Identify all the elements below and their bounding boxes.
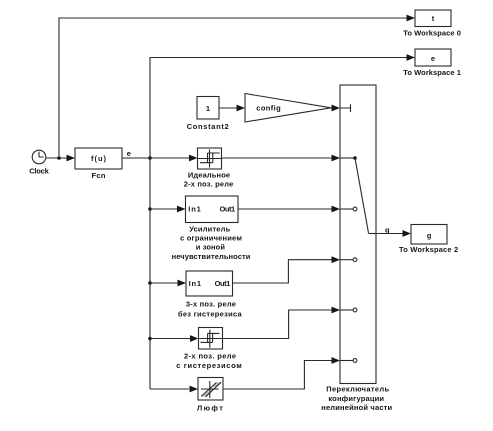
switch unselected port 4 (340, 308, 357, 312)
svg-text:1: 1 (206, 104, 210, 113)
subsystem: 3-pos relay In1/Out1 (186, 271, 233, 296)
svg-text:In1: In1 (188, 205, 201, 214)
wire Clock to Fcn (46, 157, 68, 159)
svg-text:с ограничением: с ограничением (180, 234, 242, 243)
svg-text:Constant2: Constant2 (187, 122, 229, 131)
svg-text:g: g (427, 231, 432, 240)
wire gain to switch control port (331, 107, 332, 109)
svg-text:config: config (256, 104, 281, 113)
switch selected input stub (340, 157, 355, 159)
svg-text:Переключатель: Переключатель (326, 385, 389, 394)
label 2-х поз. реле / с гистерезисом (176, 351, 242, 370)
svg-text:e: e (431, 54, 435, 63)
arrowhead into gain (237, 105, 246, 112)
svg-text:и зоной: и зоной (196, 243, 226, 252)
gain block config (245, 94, 331, 123)
wire e up to To Workspace 1 (150, 58, 407, 159)
wire amplifier to switch port 2 (238, 208, 332, 210)
junction on e bus at hysteresis relay row (148, 337, 152, 341)
svg-text:To Workspace 1: To Workspace 1 (403, 68, 461, 77)
wire e vertical bus down (149, 158, 151, 389)
switch unselected port 3 (340, 258, 357, 262)
Constant2 block (197, 97, 219, 120)
svg-text:Fcn: Fcn (92, 171, 106, 180)
To Workspace 0 block (415, 10, 451, 27)
svg-text:Усилитель: Усилитель (189, 224, 230, 233)
wire ideal relay to switch port 1 (222, 157, 333, 159)
wire Constant2 to gain config (219, 107, 237, 109)
arrowhead into hysteresis relay (190, 335, 199, 342)
subsystem: amplifier with saturation In1/Out1 (186, 196, 239, 223)
svg-text:конфигурации: конфигурации (328, 394, 384, 403)
svg-text:To Workspace 2: To Workspace 2 (399, 245, 458, 254)
arrowhead into ideal relay (189, 155, 198, 162)
arrowhead into amplifier (177, 206, 186, 213)
junction on e bus at 3-pos relay row (148, 281, 152, 285)
label Идеальное / 2-х поз. реле (184, 170, 234, 188)
arrowhead into switch port 2 (332, 206, 341, 213)
label Усилитель (4 lines) (172, 224, 251, 261)
svg-text:с гистерезисом: с гистерезисом (176, 361, 242, 370)
junction on e bus at amplifier row (148, 207, 152, 211)
switch selected input dot (353, 156, 357, 160)
wire Fcn output to relay row (122, 157, 190, 159)
switch unselected port 5 (340, 359, 357, 363)
arrowhead into switch control (332, 105, 341, 112)
svg-text:e: e (127, 149, 131, 158)
svg-text:g: g (385, 225, 390, 234)
arrowhead into switch port 4 (332, 307, 341, 314)
arrowhead into To Workspace 2 (403, 230, 412, 237)
svg-text:Out1: Out1 (220, 205, 236, 214)
wire switch output to To Workspace 2 (376, 233, 403, 235)
svg-text:нечувствительности: нечувствительности (172, 252, 251, 261)
switch control port marker (340, 104, 351, 112)
svg-text:To Workspace 0: To Workspace 0 (403, 28, 461, 37)
wire hysteresis relay to switch port 4 (223, 310, 333, 339)
switch output stub (369, 233, 376, 235)
arrowhead into Fcn (67, 155, 76, 162)
wire 3-pos relay to switch port 3 (233, 260, 333, 283)
svg-text:2-х поз. реле: 2-х поз. реле (184, 351, 236, 360)
To Workspace 2 block (411, 225, 447, 245)
junction at Clock output (57, 156, 61, 160)
label 3-х поз. реле / без гистерезиса (178, 299, 243, 318)
wire backlash to switch port 5 (223, 361, 332, 390)
svg-text:f(u): f(u) (91, 154, 107, 163)
arrowhead into switch port 5 (332, 357, 341, 364)
arrowhead into switch port 1 (332, 155, 341, 162)
svg-text:Люфт: Люфт (197, 403, 223, 412)
svg-text:Идеальное: Идеальное (188, 170, 230, 179)
relay block: ideal relay (198, 148, 222, 169)
wire e bus to 3-pos relay (150, 282, 178, 284)
arrowhead into backlash (190, 386, 199, 393)
label Переключатель / конфигурации / нелинейной части (321, 385, 392, 412)
relay block: relay with hysteresis (199, 328, 223, 350)
wire junction up to To Workspace 0 (59, 18, 407, 158)
multiport switch block (340, 85, 376, 384)
svg-text:2-х поз. реле: 2-х поз. реле (184, 179, 234, 188)
wire e bus to amplifier (150, 208, 177, 210)
svg-text:Clock: Clock (29, 166, 49, 175)
arrowhead into To Workspace 0 (407, 15, 416, 22)
wire e bus to hysteresis relay (150, 338, 190, 340)
arrowhead into switch port 3 (332, 256, 341, 263)
arrowhead into To Workspace 1 (407, 54, 416, 61)
clock source Clock (32, 150, 46, 164)
svg-text:без гистерезиса: без гистерезиса (178, 309, 243, 318)
svg-text:нелинейной части: нелинейной части (321, 403, 392, 412)
backlash block Люфт (198, 378, 223, 401)
svg-text:In1: In1 (189, 279, 202, 288)
Fcn block U: f(u) (75, 148, 122, 169)
arrowhead into 3-pos relay (178, 280, 187, 287)
To Workspace 1 block (415, 49, 451, 66)
switch selector diagonal (355, 158, 369, 234)
svg-text:Out1: Out1 (215, 279, 231, 288)
svg-text:3-х поз. реле: 3-х поз. реле (186, 299, 236, 308)
wire e bus end to backlash (150, 388, 189, 390)
switch unselected port 2 (340, 207, 357, 211)
junction node e (148, 156, 152, 160)
